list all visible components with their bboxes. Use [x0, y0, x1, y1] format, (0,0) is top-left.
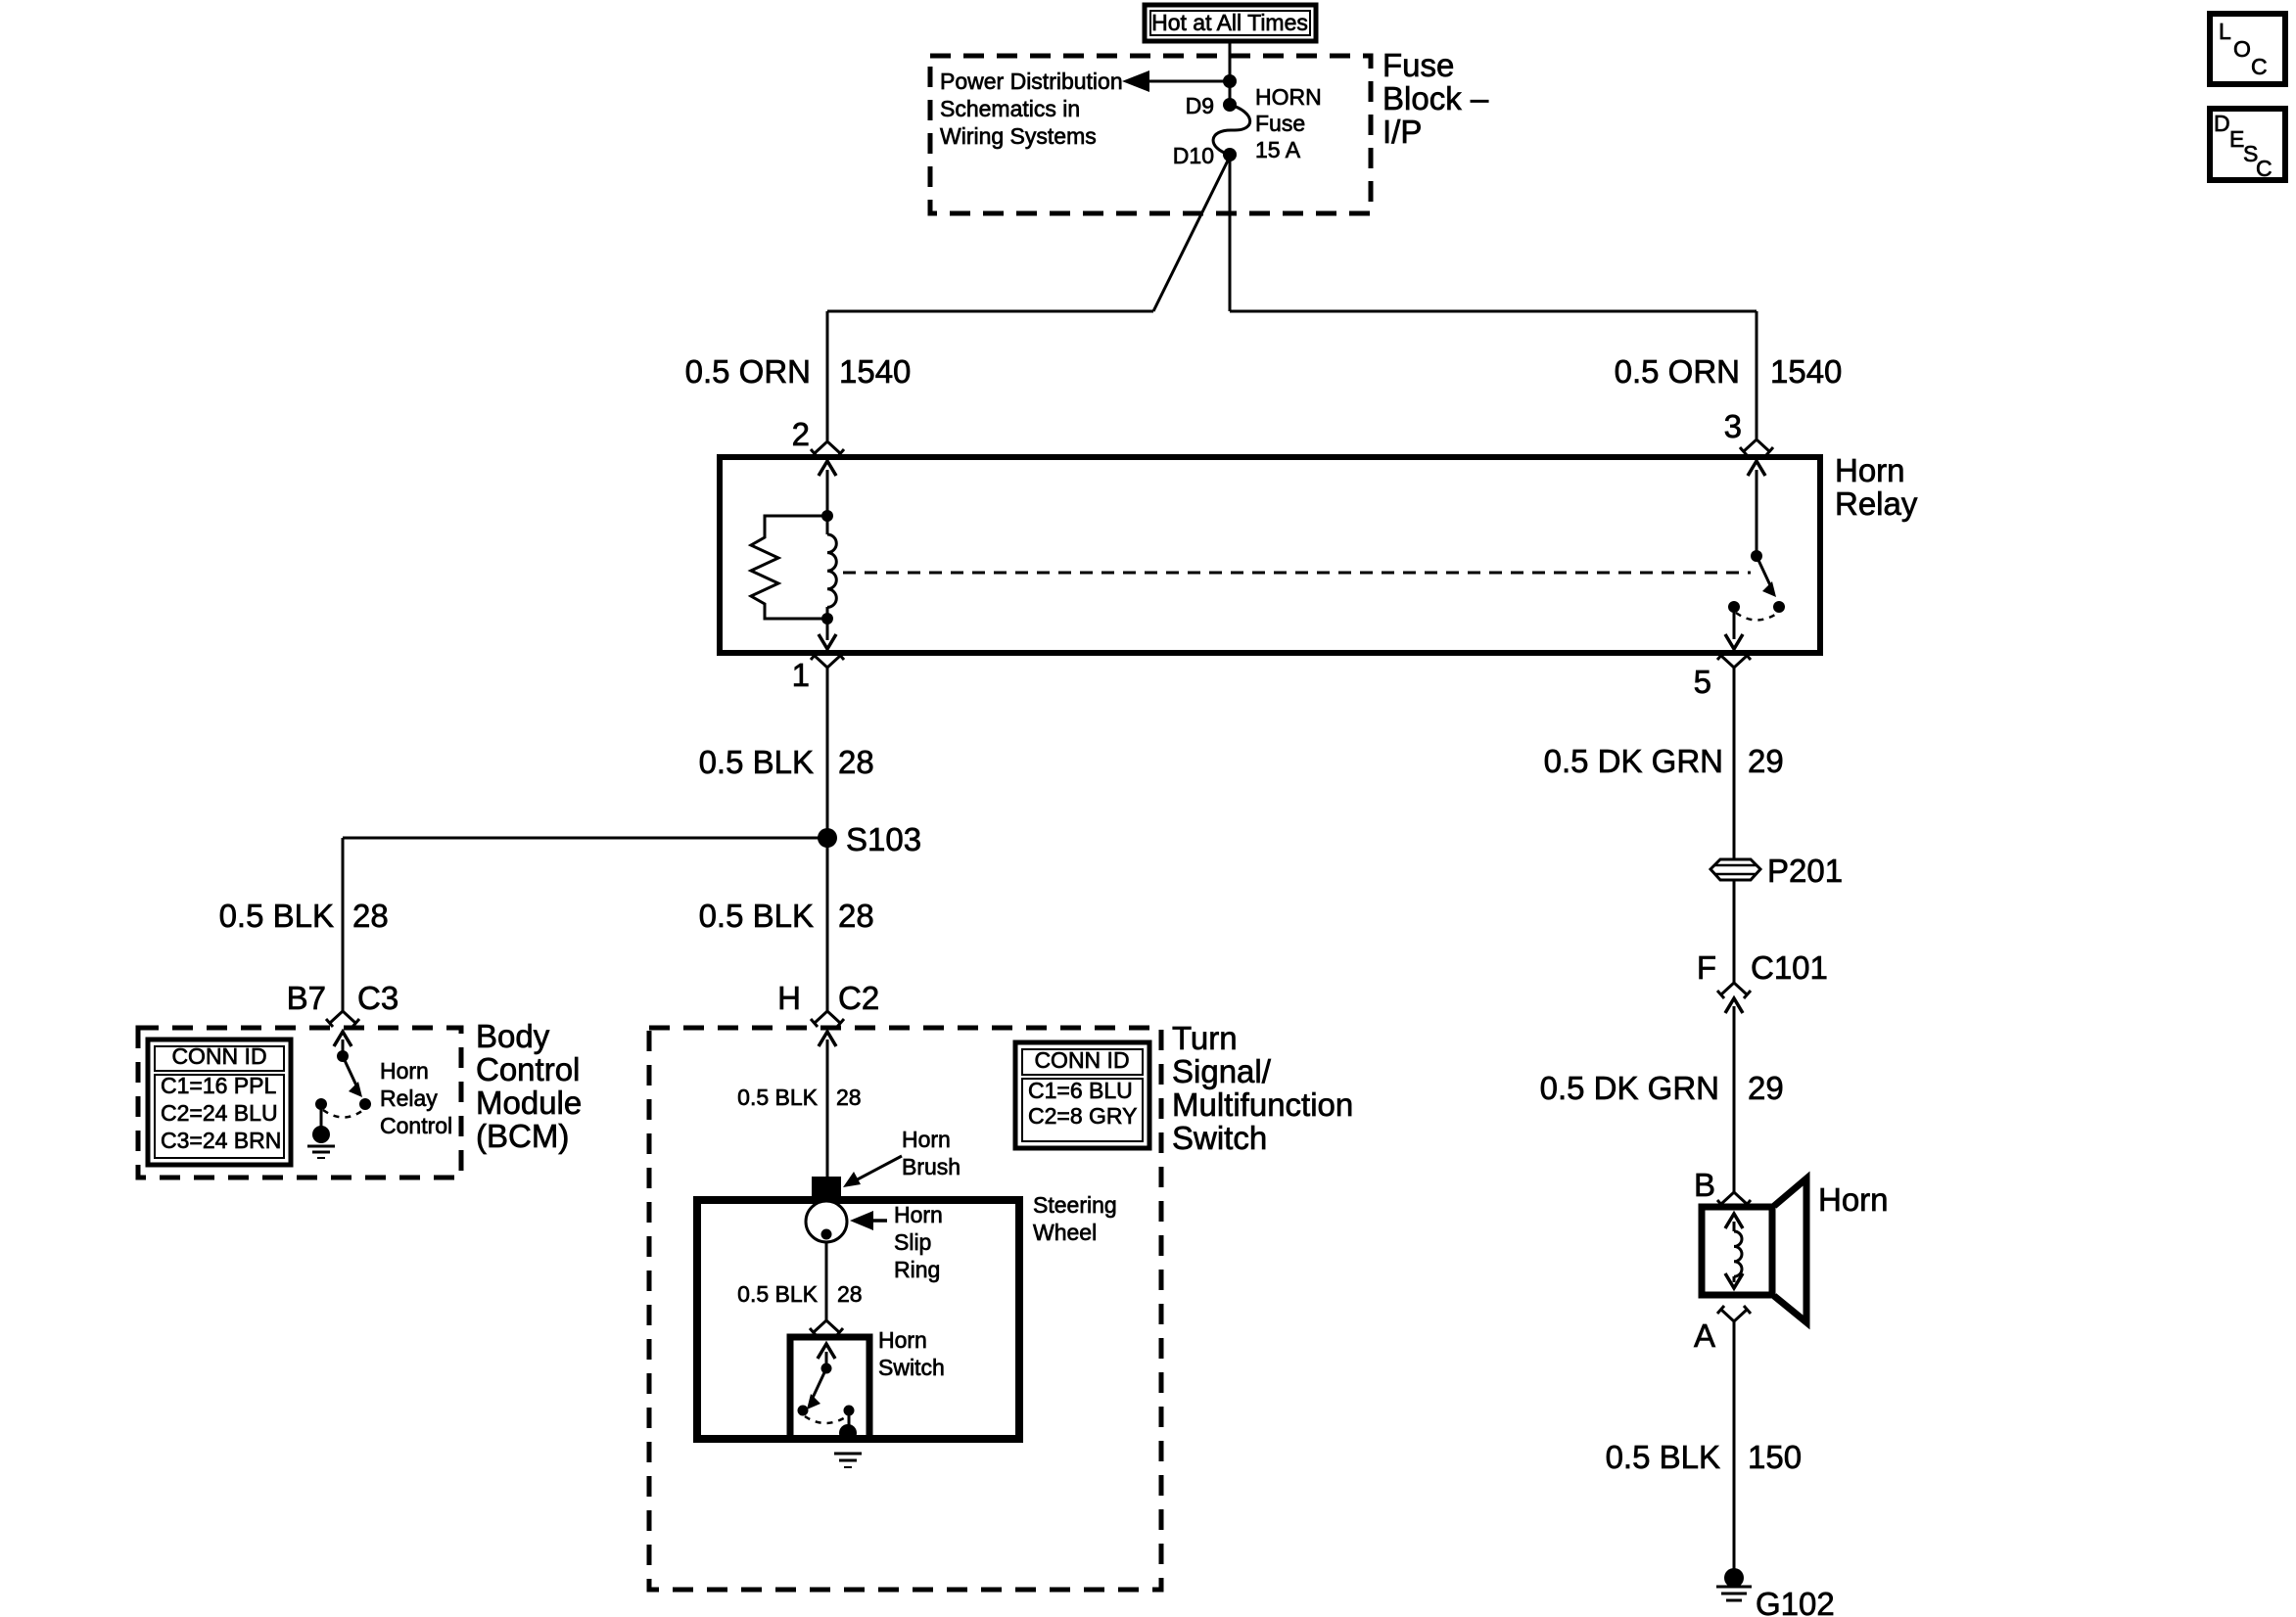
label: Steering Wheel	[1033, 1192, 1117, 1245]
svg-text:HORN: HORN	[1255, 84, 1322, 110]
wire label: 0.5 ORN 1540 (left)	[685, 353, 912, 390]
svg-text:0.5 BLK: 0.5 BLK	[1606, 1439, 1720, 1475]
svg-text:CONN ID: CONN ID	[171, 1043, 266, 1069]
Fuse Block - I/P dashed box	[930, 56, 1371, 213]
svg-text:L: L	[2219, 19, 2231, 44]
svg-text:Control: Control	[380, 1113, 452, 1138]
svg-text:Horn: Horn	[878, 1327, 927, 1353]
multifunction switch entry arrow	[819, 1032, 836, 1177]
svg-text:B7: B7	[287, 980, 326, 1016]
svg-text:Switch: Switch	[878, 1355, 945, 1380]
wire: feed from Hot banner to fuse	[1229, 41, 1232, 105]
svg-text:28: 28	[836, 1085, 862, 1110]
svg-text:D9: D9	[1186, 93, 1214, 118]
wire: slip ring to horn switch	[825, 1242, 828, 1320]
svg-text:Ring: Ring	[894, 1257, 940, 1282]
svg-text:Module: Module	[476, 1085, 582, 1121]
wire label: 0.5 BLK 150	[1606, 1439, 1802, 1475]
svg-text:I/P: I/P	[1382, 114, 1422, 150]
LOC index box	[2210, 14, 2285, 84]
svg-text:B: B	[1694, 1167, 1715, 1203]
node: contact thrown	[1773, 601, 1785, 613]
svg-text:C: C	[2251, 54, 2268, 79]
svg-text:Horn: Horn	[1818, 1181, 1889, 1218]
svg-text:0.5 DK GRN: 0.5 DK GRN	[1544, 743, 1723, 779]
wire label: 0.5 DK GRN 29 (lower)	[1540, 1070, 1784, 1106]
wire: horizontal branch to pin 2	[827, 310, 1153, 313]
wire: P201 to C101	[1733, 880, 1736, 983]
svg-text:H: H	[777, 980, 801, 1016]
connector C101 chevron	[1717, 983, 1751, 998]
connector chevron at H/C2	[811, 1011, 844, 1027]
wire label: 0.5 BLK 28 (above S103)	[699, 744, 874, 780]
relay K1 Horn Relay box	[720, 457, 1820, 653]
svg-text:Brush: Brush	[902, 1154, 961, 1179]
svg-text:0.5 BLK: 0.5 BLK	[737, 1281, 818, 1307]
wire: fuse D10 down	[1229, 155, 1232, 311]
svg-text:Relay: Relay	[380, 1086, 438, 1111]
CONN ID table (multifunction switch)	[1015, 1042, 1149, 1148]
node: contact fixed	[1728, 601, 1740, 613]
svg-text:Steering: Steering	[1033, 1192, 1117, 1218]
svg-text:C2=24 BLU: C2=24 BLU	[161, 1100, 278, 1126]
module: Turn Signal/Multifunction Switch dashed box	[649, 1028, 1161, 1590]
svg-text:Block –: Block –	[1382, 80, 1489, 116]
svg-text:Hot at All Times: Hot at All Times	[1151, 10, 1308, 35]
label: Fuse Block - I/P	[1382, 47, 1489, 150]
label: Horn Relay	[1835, 452, 1918, 522]
wire: splice branch to BCM	[343, 838, 827, 1011]
svg-text:5: 5	[1694, 664, 1711, 700]
wire: horizontal branch to pin 3	[1230, 310, 1757, 313]
svg-text:Fuse: Fuse	[1382, 47, 1454, 83]
label: Horn Slip Ring with arrow	[850, 1202, 943, 1282]
svg-text:28: 28	[837, 1281, 863, 1307]
svg-text:Multifunction: Multifunction	[1172, 1086, 1353, 1123]
svg-text:C2=8 GRY: C2=8 GRY	[1028, 1103, 1137, 1129]
label: Body Control Module (BCM)	[476, 1018, 582, 1154]
fuse F1 HORN 15A element	[1213, 105, 1250, 155]
connector chevron at horn A	[1717, 1306, 1751, 1321]
connector chevron at pin 5	[1717, 652, 1751, 668]
svg-text:(BCM): (BCM)	[476, 1118, 569, 1154]
svg-text:1540: 1540	[839, 353, 911, 390]
pin 3 entry arrow inside relay	[1748, 461, 1765, 556]
svg-text:0.5 ORN: 0.5 ORN	[685, 353, 811, 390]
svg-text:D10: D10	[1173, 143, 1214, 168]
svg-text:1540: 1540	[1770, 353, 1842, 390]
connector chevron at horn switch	[810, 1320, 843, 1336]
wire label: 0.5 DK GRN 29 (upper)	[1544, 743, 1784, 779]
svg-text:Signal/: Signal/	[1172, 1053, 1272, 1089]
pin 2 entry arrow inside relay	[819, 461, 836, 516]
svg-text:C: C	[2256, 156, 2273, 181]
horn slip ring	[806, 1201, 847, 1242]
BCM entry arrow	[334, 1032, 351, 1056]
connector chevron at pin 2	[811, 441, 844, 457]
svg-text:S103: S103	[846, 821, 921, 857]
pin 5 exit arrow inside relay	[1725, 607, 1743, 649]
module U1 BCM dashed box	[138, 1028, 461, 1178]
switch: horn relay control driver	[315, 1050, 371, 1118]
value label: HORN Fuse 15 A	[1255, 84, 1322, 162]
svg-text:F: F	[1697, 949, 1716, 986]
svg-text:29: 29	[1748, 743, 1784, 779]
note: Power Distribution Schematics reference	[940, 69, 1123, 149]
Hot at All Times banner	[1145, 5, 1316, 41]
resistor (relay coil suppression)	[751, 516, 827, 619]
svg-text:C1=6 BLU: C1=6 BLU	[1028, 1078, 1133, 1103]
wire: horn A to ground	[1733, 1321, 1736, 1570]
svg-text:Wiring Systems: Wiring Systems	[940, 123, 1097, 149]
svg-text:D: D	[2214, 111, 2230, 136]
horn flare	[1774, 1178, 1806, 1322]
svg-text:C1=16 PPL: C1=16 PPL	[161, 1073, 276, 1098]
svg-text:A: A	[1694, 1317, 1715, 1354]
connector C101 arrow	[1725, 998, 1743, 1192]
svg-text:Relay: Relay	[1835, 485, 1918, 522]
svg-text:0.5 DK GRN: 0.5 DK GRN	[1540, 1070, 1719, 1106]
svg-text:G102: G102	[1756, 1586, 1835, 1617]
svg-text:Horn: Horn	[380, 1058, 429, 1084]
wire label: 0.5 ORN 1540 (right)	[1615, 353, 1843, 390]
horn component box	[1702, 1207, 1772, 1295]
svg-text:Schematics in: Schematics in	[940, 96, 1080, 121]
svg-text:Switch: Switch	[1172, 1120, 1267, 1156]
svg-text:2: 2	[792, 416, 810, 452]
connector chevron at pin 3	[1740, 439, 1773, 455]
node: fuse terminal D10	[1223, 148, 1237, 162]
svg-text:Control: Control	[476, 1051, 580, 1087]
node: fuse terminal D9	[1223, 98, 1237, 112]
svg-text:15 A: 15 A	[1255, 137, 1301, 162]
svg-text:C3: C3	[357, 980, 398, 1016]
switch: relay contact arm	[1751, 550, 1776, 597]
svg-text:Turn: Turn	[1172, 1020, 1238, 1056]
svg-text:0.5 BLK: 0.5 BLK	[737, 1085, 818, 1110]
wire label: 0.5 BLK 28 (steering wheel)	[737, 1281, 862, 1307]
svg-text:0.5 BLK: 0.5 BLK	[699, 744, 814, 780]
svg-text:C2: C2	[838, 980, 879, 1016]
svg-text:0.5 ORN: 0.5 ORN	[1615, 353, 1740, 390]
horn brush contact	[812, 1177, 841, 1204]
steering wheel box	[697, 1200, 1019, 1439]
node: junction at feed	[1223, 74, 1237, 88]
wire: riser to relay pin 3	[1756, 311, 1758, 439]
svg-text:3: 3	[1724, 408, 1742, 444]
wire label: 0.5 BLK 28 (center branch)	[699, 898, 874, 934]
svg-text:Horn: Horn	[1835, 452, 1905, 488]
svg-text:C101: C101	[1751, 949, 1828, 986]
svg-text:C3=24 BRN: C3=24 BRN	[161, 1128, 281, 1153]
node: coil top junction	[821, 510, 833, 522]
svg-text:Fuse: Fuse	[1255, 111, 1305, 136]
inductor: relay coil	[827, 516, 836, 619]
svg-text:P201: P201	[1767, 853, 1843, 889]
switch: horn switch contacts	[798, 1363, 855, 1424]
horn switch box	[790, 1337, 869, 1439]
pin 1 exit arrow inside relay	[819, 619, 836, 649]
svg-text:0.5 BLK: 0.5 BLK	[699, 898, 814, 934]
pass-through grommet P201	[1710, 859, 1760, 880]
svg-text:29: 29	[1748, 1070, 1784, 1106]
wire: S103 down to multifunction switch	[826, 838, 829, 1011]
svg-text:28: 28	[838, 744, 874, 780]
wire: riser to relay pin 2	[826, 311, 829, 440]
dashed actuation link	[843, 572, 1751, 575]
CONN ID table (BCM)	[148, 1039, 291, 1165]
connector chevron at pin 1	[811, 652, 844, 668]
svg-text:CONN ID: CONN ID	[1034, 1047, 1129, 1073]
svg-text:O: O	[2233, 36, 2251, 62]
svg-text:Horn: Horn	[894, 1202, 943, 1227]
wire: relay pin 1 down to S103	[826, 668, 829, 838]
svg-text:1: 1	[792, 657, 810, 693]
horn switch entry arrow	[818, 1344, 835, 1368]
DESC index box	[2210, 109, 2285, 181]
dashed throw arc	[1736, 613, 1778, 621]
svg-text:Power Distribution: Power Distribution	[940, 69, 1123, 94]
svg-text:0.5 BLK: 0.5 BLK	[219, 898, 334, 934]
label: Horn Switch	[878, 1327, 945, 1380]
connector chevron at horn B	[1717, 1192, 1751, 1208]
horn coil with arrows	[1725, 1214, 1743, 1288]
connector chevron at B7/C3	[326, 1011, 359, 1027]
svg-text:Wheel: Wheel	[1033, 1220, 1097, 1245]
svg-text:Horn: Horn	[902, 1127, 951, 1152]
ground G102	[1716, 1568, 1752, 1600]
node: coil bottom junction	[821, 613, 833, 624]
wire: diagonal branch from D10	[1153, 157, 1230, 311]
wire label: 0.5 BLK 28 (inside switch)	[737, 1085, 861, 1110]
node S103	[818, 828, 837, 848]
wire label: 0.5 BLK 28 (left branch)	[219, 898, 389, 934]
svg-text:28: 28	[352, 898, 389, 934]
svg-text:150: 150	[1748, 1439, 1802, 1475]
svg-text:Slip: Slip	[894, 1229, 931, 1255]
ground inside BCM	[307, 1104, 335, 1158]
wire: arrow to power distribution	[1122, 70, 1230, 92]
svg-text:28: 28	[838, 898, 874, 934]
wire: relay pin 5 down to P201	[1733, 668, 1736, 859]
svg-text:Body: Body	[476, 1018, 550, 1054]
label: Turn Signal/Multifunction Switch	[1172, 1020, 1353, 1156]
label: Horn Relay Control	[380, 1058, 452, 1138]
ground inside horn switch	[834, 1410, 862, 1467]
label: Horn Brush with arrow	[843, 1127, 961, 1187]
